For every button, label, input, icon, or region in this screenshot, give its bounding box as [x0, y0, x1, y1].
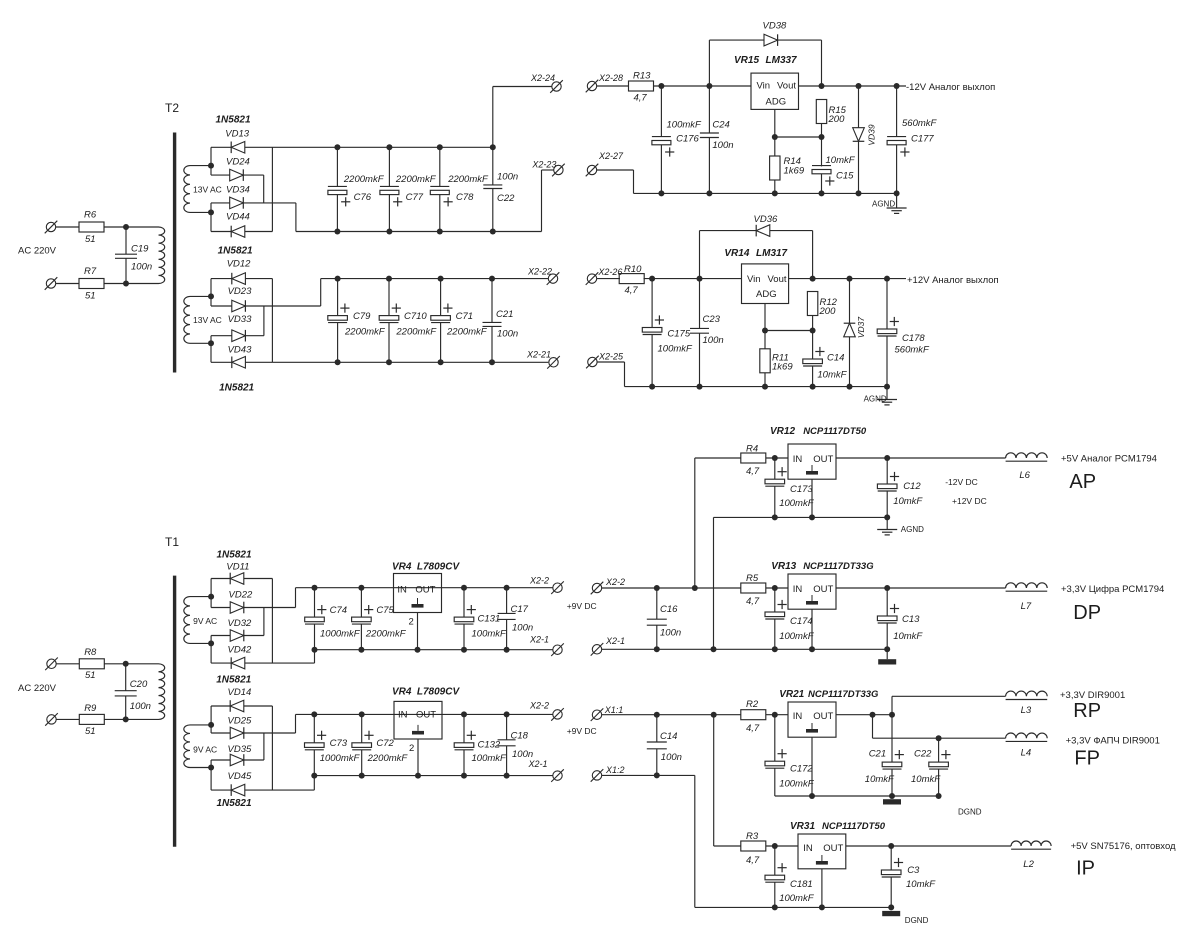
svg-text:13V AC: 13V AC	[193, 184, 222, 194]
svg-text:OUT: OUT	[416, 710, 436, 721]
svg-text:AC 220V: AC 220V	[18, 683, 57, 694]
svg-text:C174: C174	[790, 616, 813, 627]
svg-text:560mkF: 560mkF	[895, 344, 931, 355]
svg-text:C710: C710	[404, 311, 427, 322]
svg-text:DP: DP	[1073, 602, 1101, 624]
svg-text:1N5821: 1N5821	[216, 675, 251, 686]
svg-text:R7: R7	[84, 266, 97, 277]
svg-text:100mkF: 100mkF	[779, 631, 815, 642]
svg-text:10mkF: 10mkF	[893, 496, 923, 507]
svg-text:-12V Аналог выхлоп: -12V Аналог выхлоп	[906, 82, 995, 93]
svg-text:4,7: 4,7	[634, 92, 648, 103]
svg-text:C71: C71	[456, 311, 473, 322]
svg-text:C22: C22	[497, 193, 515, 204]
svg-text:2200mkF: 2200mkF	[344, 326, 386, 337]
svg-text:X2-23: X2-23	[531, 160, 556, 170]
svg-text:R13: R13	[633, 71, 651, 82]
svg-text:Vin: Vin	[757, 81, 771, 92]
svg-text:VD36: VD36	[754, 214, 778, 225]
svg-text:2200mkF: 2200mkF	[365, 629, 407, 640]
svg-text:VR21: VR21	[779, 689, 804, 700]
svg-text:+3,3V DIR9001: +3,3V DIR9001	[1060, 690, 1125, 701]
svg-text:VR13: VR13	[771, 561, 796, 572]
svg-text:51: 51	[85, 291, 96, 302]
svg-text:VR12: VR12	[770, 426, 795, 437]
svg-text:C18: C18	[511, 730, 529, 741]
svg-text:X2-1: X2-1	[605, 636, 625, 646]
svg-text:2200mkF: 2200mkF	[395, 174, 437, 185]
svg-text:100n: 100n	[497, 172, 518, 183]
svg-text:C14: C14	[660, 731, 677, 742]
svg-text:T2: T2	[165, 101, 179, 115]
svg-text:NCP1117DT50: NCP1117DT50	[803, 426, 867, 437]
svg-text:R9: R9	[84, 703, 97, 714]
svg-text:L3: L3	[1021, 705, 1032, 716]
svg-text:X1:1: X1:1	[604, 705, 624, 715]
svg-text:C131: C131	[478, 614, 501, 625]
svg-text:13V AC: 13V AC	[193, 315, 222, 325]
svg-text:L2: L2	[1023, 859, 1034, 870]
svg-text:C19: C19	[131, 244, 149, 255]
svg-text:2200mkF: 2200mkF	[446, 326, 488, 337]
svg-text:100n: 100n	[661, 752, 682, 763]
svg-text:X2-22: X2-22	[527, 267, 552, 277]
svg-text:VD38: VD38	[763, 21, 787, 32]
svg-text:L7809CV: L7809CV	[417, 687, 461, 698]
svg-text:100mkF: 100mkF	[472, 629, 508, 640]
svg-text:9V AC: 9V AC	[193, 616, 217, 626]
svg-text:10mkF: 10mkF	[826, 155, 856, 166]
svg-text:R10: R10	[624, 264, 642, 275]
svg-text:VD37: VD37	[856, 317, 866, 339]
svg-text:1k69: 1k69	[784, 165, 805, 176]
svg-text:X2-1: X2-1	[528, 759, 548, 769]
svg-text:C78: C78	[456, 192, 474, 203]
svg-text:L7: L7	[1021, 601, 1032, 612]
svg-text:100n: 100n	[703, 335, 724, 346]
svg-text:VD23: VD23	[228, 286, 252, 297]
svg-text:C77: C77	[406, 192, 424, 203]
svg-text:2200mkF: 2200mkF	[343, 174, 385, 185]
svg-text:100n: 100n	[130, 701, 151, 712]
svg-text:NCP1117DT33G: NCP1117DT33G	[803, 561, 874, 572]
svg-text:C176: C176	[676, 134, 699, 145]
svg-text:100mkF: 100mkF	[667, 119, 703, 130]
svg-text:C15: C15	[836, 171, 854, 182]
svg-text:L6: L6	[1019, 470, 1030, 481]
svg-text:VD12: VD12	[227, 258, 251, 269]
svg-text:4,7: 4,7	[746, 466, 760, 477]
svg-text:X2-27: X2-27	[598, 151, 624, 161]
svg-text:100mkF: 100mkF	[779, 779, 815, 790]
svg-text:VD44: VD44	[226, 212, 250, 223]
svg-text:RP: RP	[1073, 700, 1101, 722]
svg-text:VR4: VR4	[392, 687, 412, 698]
svg-text:IN: IN	[398, 710, 408, 721]
svg-text:VD14: VD14	[228, 687, 252, 698]
svg-text:FP: FP	[1074, 747, 1100, 769]
svg-text:OUT: OUT	[415, 584, 435, 595]
svg-text:C21: C21	[496, 309, 513, 320]
svg-text:C23: C23	[703, 314, 721, 325]
svg-text:+9V DC: +9V DC	[567, 601, 597, 611]
svg-text:C22: C22	[914, 748, 932, 759]
svg-text:IN: IN	[397, 584, 407, 595]
svg-text:IN: IN	[803, 843, 813, 854]
svg-text:100n: 100n	[512, 749, 533, 760]
svg-text:LM317: LM317	[756, 248, 788, 259]
svg-text:1N5821: 1N5821	[217, 550, 252, 561]
svg-text:4,7: 4,7	[625, 285, 639, 296]
svg-text:ADG: ADG	[766, 96, 787, 107]
svg-text:10mkF: 10mkF	[906, 879, 936, 890]
svg-text:C178: C178	[902, 333, 925, 344]
svg-text:VD45: VD45	[228, 771, 252, 782]
svg-text:AGND: AGND	[864, 395, 887, 404]
svg-text:1k69: 1k69	[772, 362, 793, 373]
svg-text:1000mkF: 1000mkF	[320, 629, 361, 640]
svg-text:R5: R5	[746, 573, 759, 584]
svg-text:C132: C132	[478, 739, 501, 750]
svg-text:+3,3V ФАПЧ DIR9001: +3,3V ФАПЧ DIR9001	[1066, 735, 1160, 746]
svg-text:T1: T1	[165, 535, 179, 549]
svg-text:100mkF: 100mkF	[779, 893, 815, 904]
svg-text:C75: C75	[376, 605, 394, 616]
svg-text:VD43: VD43	[228, 345, 252, 356]
svg-text:OUT: OUT	[813, 584, 833, 595]
svg-text:10mkF: 10mkF	[893, 631, 923, 642]
svg-text:51: 51	[85, 670, 96, 681]
svg-text:IN: IN	[793, 454, 803, 465]
svg-text:+5V Аналог PCM1794: +5V Аналог PCM1794	[1061, 454, 1157, 465]
svg-text:AC 220V: AC 220V	[18, 246, 57, 257]
svg-text:VD25: VD25	[228, 715, 252, 726]
svg-text:X2-24: X2-24	[530, 73, 555, 83]
svg-text:200: 200	[819, 306, 837, 317]
svg-text:IP: IP	[1076, 857, 1095, 879]
svg-text:2: 2	[409, 743, 414, 754]
svg-text:C172: C172	[790, 764, 813, 775]
svg-text:2200mkF: 2200mkF	[395, 326, 437, 337]
svg-text:100n: 100n	[131, 262, 152, 273]
svg-text:VD22: VD22	[229, 590, 253, 601]
svg-text:2200mkF: 2200mkF	[447, 174, 489, 185]
svg-text:4,7: 4,7	[746, 855, 760, 866]
svg-text:4,7: 4,7	[746, 596, 760, 607]
svg-text:C13: C13	[902, 614, 920, 625]
svg-text:X1:2: X1:2	[605, 765, 625, 775]
svg-text:C24: C24	[712, 119, 729, 130]
svg-text:C21: C21	[869, 748, 886, 759]
svg-text:Vin: Vin	[747, 274, 761, 285]
svg-text:IN: IN	[793, 711, 803, 722]
svg-text:C173: C173	[790, 484, 813, 495]
svg-text:9V AC: 9V AC	[193, 745, 217, 755]
svg-text:VD13: VD13	[225, 129, 249, 140]
svg-text:R6: R6	[84, 210, 97, 221]
svg-text:AGND: AGND	[901, 525, 924, 534]
svg-text:C74: C74	[330, 605, 347, 616]
svg-text:100n: 100n	[512, 623, 533, 634]
svg-text:1N5821: 1N5821	[216, 115, 251, 126]
svg-text:200: 200	[828, 114, 846, 125]
svg-text:+9V DC: +9V DC	[567, 726, 597, 736]
svg-text:Vout: Vout	[777, 81, 796, 92]
svg-text:100mkF: 100mkF	[472, 753, 508, 764]
svg-text:X2-1: X2-1	[529, 634, 549, 644]
svg-text:VR31: VR31	[790, 821, 815, 832]
svg-text:VD35: VD35	[228, 744, 252, 755]
svg-text:VD42: VD42	[228, 644, 252, 655]
svg-text:VD24: VD24	[226, 157, 250, 168]
svg-text:LM337: LM337	[766, 55, 798, 66]
svg-text:X2-25: X2-25	[598, 351, 624, 361]
svg-text:IN: IN	[793, 584, 803, 595]
svg-text:-12V DC: -12V DC	[945, 477, 978, 487]
svg-text:2: 2	[409, 617, 414, 628]
svg-text:51: 51	[85, 234, 96, 245]
svg-text:560mkF: 560mkF	[902, 118, 938, 129]
svg-text:AP: AP	[1069, 471, 1096, 493]
svg-text:+3,3V Цифра PCM1794: +3,3V Цифра PCM1794	[1061, 584, 1164, 595]
svg-text:C73: C73	[330, 738, 348, 749]
svg-text:Vout: Vout	[768, 274, 787, 285]
svg-text:1000mkF: 1000mkF	[320, 753, 361, 764]
svg-text:DGND: DGND	[958, 807, 982, 816]
svg-text:DGND: DGND	[905, 916, 929, 925]
svg-text:L7809CV: L7809CV	[417, 562, 461, 573]
svg-text:C76: C76	[354, 192, 372, 203]
svg-text:C20: C20	[130, 679, 148, 690]
svg-text:C12: C12	[903, 481, 921, 492]
svg-text:100mkF: 100mkF	[658, 344, 694, 355]
svg-text:X2-28: X2-28	[598, 73, 623, 83]
svg-text:1N5821: 1N5821	[217, 798, 252, 809]
svg-text:+5V SN75176, оптовход: +5V SN75176, оптовход	[1071, 841, 1176, 852]
svg-text:VD32: VD32	[228, 618, 252, 629]
svg-text:C175: C175	[667, 328, 690, 339]
svg-text:10mkF: 10mkF	[817, 370, 847, 381]
svg-text:R2: R2	[746, 699, 759, 710]
svg-text:C14: C14	[827, 352, 844, 363]
svg-text:X2-2: X2-2	[529, 576, 549, 586]
svg-text:NCP1117DT50: NCP1117DT50	[822, 821, 886, 832]
svg-text:R4: R4	[746, 443, 758, 454]
svg-text:C181: C181	[790, 879, 813, 890]
svg-text:OUT: OUT	[813, 454, 833, 465]
svg-text:100mkF: 100mkF	[779, 498, 815, 509]
svg-text:51: 51	[85, 726, 96, 737]
svg-text:C177: C177	[911, 134, 934, 145]
svg-text:VD34: VD34	[226, 184, 250, 195]
svg-text:R3: R3	[746, 831, 759, 842]
svg-text:VD39: VD39	[867, 124, 877, 146]
svg-text:NCP1117DT33G: NCP1117DT33G	[808, 689, 879, 700]
svg-text:C79: C79	[353, 311, 371, 322]
svg-text:VR14: VR14	[724, 248, 749, 259]
svg-text:OUT: OUT	[813, 711, 833, 722]
svg-text:OUT: OUT	[823, 843, 843, 854]
svg-text:R8: R8	[84, 647, 97, 658]
svg-text:2200mkF: 2200mkF	[367, 753, 409, 764]
svg-text:10mkF: 10mkF	[911, 774, 941, 785]
svg-text:VR4: VR4	[392, 562, 412, 573]
svg-text:ADG: ADG	[756, 289, 777, 300]
svg-text:+12V DC: +12V DC	[952, 496, 987, 506]
svg-text:C72: C72	[376, 738, 394, 749]
svg-text:10mkF: 10mkF	[865, 774, 895, 785]
svg-text:L4: L4	[1021, 748, 1032, 759]
svg-text:100n: 100n	[712, 140, 733, 151]
svg-text:100n: 100n	[497, 328, 518, 339]
svg-text:VD11: VD11	[226, 562, 249, 573]
svg-text:X2-2: X2-2	[605, 577, 625, 587]
svg-text:C16: C16	[660, 604, 678, 615]
svg-text:+12V Аналог выхлоп: +12V Аналог выхлоп	[907, 275, 999, 286]
svg-text:100n: 100n	[660, 627, 681, 638]
svg-text:VR15: VR15	[734, 55, 759, 66]
svg-text:X2-21: X2-21	[526, 350, 551, 360]
svg-text:C17: C17	[511, 604, 529, 615]
svg-text:1N5821: 1N5821	[218, 246, 253, 257]
svg-text:AGND: AGND	[872, 200, 895, 209]
svg-text:C3: C3	[907, 865, 920, 876]
svg-text:VD33: VD33	[228, 314, 252, 325]
svg-text:X2-2: X2-2	[529, 701, 549, 711]
svg-text:1N5821: 1N5821	[219, 383, 254, 394]
svg-text:4,7: 4,7	[746, 723, 760, 734]
